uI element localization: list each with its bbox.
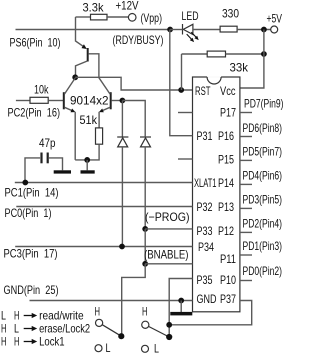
svg-text:PD1(Pin3): PD1(Pin3)	[243, 239, 283, 253]
IC U1 notch	[207, 76, 221, 78]
resistor R4 10k	[30, 97, 48, 103]
wire +5V to Vcc	[240, 30, 264, 89]
switch S1 L contact	[95, 345, 102, 352]
switch S2 L contact	[142, 345, 149, 352]
wire PC2 line	[16, 100, 30, 102]
diode D1	[117, 101, 128, 247]
ground bar pair	[81, 170, 95, 173]
node Q3 base junction	[120, 98, 126, 104]
IC U1 body	[193, 77, 240, 312]
wire P37 to switch	[169, 301, 252, 325]
ground stub pair	[86, 160, 88, 170]
wire 330 to +5V	[237, 29, 270, 31]
capacitor C1 plates	[42, 153, 48, 164]
svg-text:L: L	[106, 341, 111, 355]
svg-text:P14: P14	[218, 176, 234, 190]
terminal +5V	[271, 26, 278, 33]
wire PC1 line	[15, 182, 193, 184]
transistor Q3 bar	[110, 92, 112, 109]
node GND junction	[178, 298, 184, 304]
ground stub IC	[180, 301, 182, 313]
node emitter ground junction	[84, 157, 90, 163]
transistor Q1 collector	[76, 61, 88, 77]
pin wire PD4	[240, 183, 252, 185]
node P34 junction	[142, 261, 148, 267]
svg-text:PD6(Pin8): PD6(Pin8)	[243, 121, 283, 135]
svg-text:L: L	[154, 342, 159, 355]
svg-text:P12: P12	[218, 224, 234, 238]
svg-text:P31: P31	[197, 129, 213, 143]
svg-text:PD2(Pin4): PD2(Pin4)	[243, 217, 283, 231]
wire PS6/RDY rail	[16, 29, 171, 31]
svg-text:P13: P13	[218, 200, 234, 214]
resistor R1 3.3k	[91, 14, 108, 20]
svg-text:P11: P11	[220, 252, 236, 266]
svg-text:PD0(Pin2): PD0(Pin2)	[243, 264, 283, 278]
svg-text:(BNABLE): (BNABLE)	[144, 247, 189, 261]
pin wire PD6	[240, 136, 252, 138]
wire P34	[145, 263, 192, 265]
wire P35 to switch	[169, 279, 192, 338]
resistor R2 33k	[207, 51, 225, 57]
transistor Q3 collector	[99, 78, 110, 94]
LED emission arrows	[187, 32, 197, 40]
svg-text:PC0(Pin 1): PC0(Pin 1)	[5, 206, 52, 220]
legend arrow row3	[24, 339, 38, 344]
node D2 P33 junction	[142, 226, 148, 232]
svg-text:P16: P16	[218, 129, 234, 143]
svg-text:erase/Lock2: erase/Lock2	[39, 321, 90, 335]
svg-text:P32: P32	[197, 200, 213, 214]
svg-text:(−PROG): (−PROG)	[145, 210, 190, 224]
node collector junction	[72, 74, 78, 80]
resistor R5 51k	[96, 128, 103, 144]
svg-text:P33: P33	[197, 224, 213, 238]
svg-text:H: H	[95, 305, 101, 319]
svg-text:L: L	[1, 308, 6, 322]
svg-text:(Vpp): (Vpp)	[141, 11, 163, 25]
svg-text:P17: P17	[220, 105, 236, 119]
pin wire PD5	[240, 159, 252, 161]
node +5V junction	[261, 27, 267, 33]
svg-text:10k: 10k	[34, 83, 49, 97]
pin stub P15 row	[178, 158, 193, 160]
wire R1 to +12V terminal	[107, 16, 128, 18]
svg-text:GND: GND	[197, 292, 217, 306]
wire 10k to Q2 base	[48, 100, 63, 102]
wire P33	[145, 228, 192, 230]
wire 51k bottom	[75, 144, 99, 160]
pin wire PD0	[240, 280, 252, 282]
svg-text:P35: P35	[197, 273, 213, 287]
resistor R3 330	[220, 26, 237, 32]
switch S1 lever	[102, 325, 121, 337]
transistor Q2 emitter	[65, 107, 75, 111]
svg-text:P15: P15	[218, 152, 234, 166]
svg-text:PD3(Pin5): PD3(Pin5)	[243, 193, 283, 207]
pin wire PD7	[240, 112, 252, 114]
switch S2 lever	[149, 326, 170, 337]
transistor Q2 collector	[65, 78, 76, 94]
diode D2	[140, 137, 151, 229]
wire base to diode D2	[122, 101, 145, 137]
svg-text:Lock1: Lock1	[39, 334, 65, 348]
transistor Q3 emitter arrow	[99, 109, 104, 113]
svg-text:9014x2: 9014x2	[70, 94, 109, 108]
wire D2 junction drop	[144, 229, 146, 264]
svg-text:H: H	[142, 305, 148, 319]
switch S2 H contact	[142, 321, 149, 328]
wire Q2 emitter drop	[74, 112, 76, 160]
pin stub P17 row	[178, 112, 193, 114]
svg-text:33k: 33k	[230, 61, 249, 75]
wire +12V branch	[76, 16, 91, 18]
wire PC3 line	[15, 246, 192, 248]
node PC1 cap junction	[22, 180, 28, 186]
transistor Q3 emitter	[100, 107, 110, 111]
svg-text:L: L	[14, 321, 19, 335]
ground bar capacitor	[54, 170, 71, 173]
svg-text:330: 330	[222, 7, 239, 21]
svg-text:+5V: +5V	[267, 12, 283, 26]
svg-text:+12V: +12V	[116, 0, 139, 13]
svg-text:H: H	[14, 308, 20, 322]
svg-text:LED: LED	[182, 9, 199, 23]
node P37 switch junction	[166, 322, 172, 328]
wire Q1 emitter drop	[76, 17, 86, 48]
capacitor C1 47p left wire	[25, 158, 40, 183]
capacitor C1 right wire	[49, 158, 63, 170]
svg-text:GND(Pin 25): GND(Pin 25)	[4, 283, 59, 297]
wire P34 to switch jog	[122, 264, 146, 337]
svg-text:(RDY/BUSY): (RDY/BUSY)	[113, 33, 164, 47]
node 33k +5V junction	[261, 51, 267, 57]
terminal +12V	[128, 13, 136, 21]
svg-text:51k: 51k	[80, 113, 98, 127]
svg-text:H: H	[1, 334, 7, 348]
pin wire PD2	[240, 231, 252, 233]
LED D3	[170, 24, 220, 35]
node PC3 diode junction	[119, 244, 125, 250]
transistor Q2 bar	[63, 92, 65, 109]
svg-text:47p: 47p	[39, 136, 56, 150]
wire pair top rail	[75, 77, 193, 90]
wire P31 to RDY rail	[170, 30, 193, 136]
switch S1 H contact	[96, 319, 103, 326]
transistor Q1 emitter arrow	[82, 44, 87, 49]
legend arrow row1	[24, 313, 38, 318]
svg-text:RST: RST	[195, 84, 211, 98]
svg-text:read/write: read/write	[39, 308, 84, 322]
switch S2 common node	[166, 334, 172, 340]
node RST junction	[178, 87, 184, 93]
transistor Q1 base wire	[88, 54, 99, 78]
svg-text:PD5(Pin7): PD5(Pin7)	[243, 145, 283, 159]
pin wire PD1	[240, 254, 252, 256]
legend arrow row2	[24, 326, 38, 331]
svg-text:P37: P37	[220, 292, 236, 306]
pin wire PD3	[240, 207, 252, 209]
svg-text:Vcc: Vcc	[220, 84, 236, 98]
wire PC0 line	[16, 206, 192, 208]
wire Q3 emitter to 51k	[98, 112, 100, 128]
svg-text:PS6(Pin 10): PS6(Pin 10)	[10, 35, 61, 49]
transistor Q1 bar	[87, 48, 89, 62]
transistor Q2 emitter arrow	[71, 109, 76, 113]
svg-text:P10: P10	[220, 273, 236, 287]
wire 33k left	[182, 53, 208, 55]
wire 33k riser	[181, 54, 183, 90]
wire 33k right	[226, 53, 264, 55]
svg-text:H: H	[1, 321, 7, 335]
svg-text:3.3k: 3.3k	[83, 1, 105, 15]
svg-text:PC1(Pin 14): PC1(Pin 14)	[5, 186, 59, 200]
node LED junction	[167, 27, 173, 33]
svg-text:PC3(Pin 17): PC3(Pin 17)	[4, 246, 58, 260]
ground bar IC	[170, 312, 192, 316]
svg-text:PC2(Pin 16): PC2(Pin 16)	[8, 106, 61, 120]
switch S1 common node	[118, 333, 124, 339]
svg-text:PD7(Pin9): PD7(Pin9)	[244, 97, 284, 111]
svg-text:PD4(Pin6): PD4(Pin6)	[243, 169, 283, 183]
wire GND line	[30, 300, 193, 302]
svg-text:P34: P34	[198, 240, 214, 254]
svg-text:H: H	[14, 334, 20, 348]
svg-text:XLAT1: XLAT1	[194, 176, 217, 190]
transistor Q3 base wire	[111, 100, 122, 102]
